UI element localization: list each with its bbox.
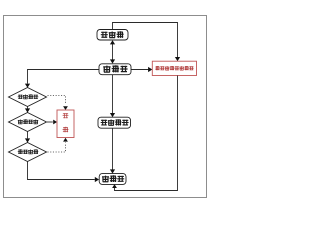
wire: producer top loop to payment-failure box: [113, 23, 178, 58]
process box: after-sales service (售后服务): [98, 117, 131, 128]
wire: payment-failure box loop down-left-up into retailer bottom: [115, 76, 178, 191]
wire: branch to payment-failure box: [131, 69, 149, 71]
wire: diamond2 to risk box left: [47, 121, 53, 123]
wire: branch left then down to diamond 1: [28, 70, 100, 84]
wire: producer/branch double arrow: [112, 43, 114, 60]
process box: producer (生产商): [97, 30, 128, 41]
decision diamond: customer screening (客户筛选): [9, 88, 47, 107]
process box: branch company (分公司): [99, 64, 131, 75]
dotted wire: diamond3 to risk box bottom: [48, 143, 66, 153]
wire: diamond2 to diamond3: [27, 132, 29, 139]
outer frame: [4, 16, 207, 198]
red box: risk (风险), vertical text: [57, 110, 74, 138]
decision diamond: order generation (订单生成): [9, 143, 47, 162]
red box: payment recovery failure handling (货款回收失败的处理): [152, 61, 196, 75]
wire: diamond3 down then right to retailer: [28, 162, 95, 180]
dotted wire: diamond1 to risk box top: [48, 96, 66, 105]
wire: branch down to after-sales: [112, 75, 114, 113]
decision diamond: customer communication (客户沟通): [9, 113, 47, 132]
wire: diamond1 to diamond2: [27, 107, 29, 109]
wire: after-sales down to retailer: [112, 128, 114, 169]
process box: retailer (应用商): [99, 174, 126, 185]
